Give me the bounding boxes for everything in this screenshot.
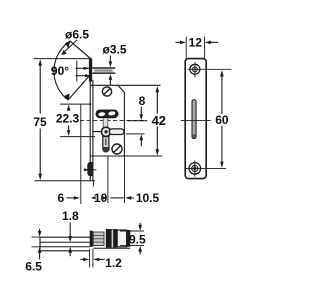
knob stem (lower slot) [103,137,109,152]
plate centerline [181,119,211,121]
arrowhead at top edge end [84,67,89,70]
knurled ring dark section [127,230,131,247]
9.5 dimension line lower with up arrowhead [138,246,142,252]
cam lever horizontal position: top edge [76,67,90,69]
22.3 dimension lower arrowhead (down) [68,126,70,131]
svg-text:12: 12 [189,36,203,50]
spindle shaft top lines [92,67,115,69]
slider slot stadium (dark with two white lens openings) [96,110,118,118]
22.3 dimension top extension line [60,103,92,105]
svg-text:10.5: 10.5 [136,191,160,205]
extension line from case right edge to bottom dims [124,156,126,203]
bottom hole vertical crosshair [194,160,196,176]
10 dimension right arrowhead [103,196,108,199]
bottom view cam bar inner lines [40,242,90,247]
front view: lock case top edge and 42-dim top extension line [91,84,161,86]
stack bottom edge line [93,247,130,249]
ø3.5 dimension line upper segment [109,56,111,62]
svg-text:ø6.5: ø6.5 [65,28,89,42]
stem screw slot [105,139,107,146]
svg-text:75: 75 [33,115,47,129]
front view: faceplate left edge line [89,80,91,181]
svg-text:6: 6 [57,191,64,205]
10.5 dimension left-pointing arrowhead with tail [125,196,131,200]
bottom hole horizontal crosshair and 60-dim bottom extension [186,167,226,169]
dashed centerline through cylinder axis [80,119,147,121]
1.2 dimension left line and arrowhead [80,258,84,260]
top hole horizontal crosshair and 60-dim top extension [188,68,232,70]
cam swing edge lower diagonal [68,75,91,101]
9.5 dimension line upper with down arrowhead [139,223,141,226]
bottom plate hole outer circle [189,163,201,175]
knob axis line [93,131,111,133]
svg-text:6.5: 6.5 [25,260,42,274]
12 dimension left line and arrowhead [176,41,182,43]
cam swing edge upper diagonal [70,41,91,59]
svg-text:90°: 90° [51,64,69,78]
svg-text:60: 60 [215,113,229,127]
6.5 dimension extension lines [32,237,41,247]
75 dimension bottom extension line [35,180,96,182]
ø3.5 arrowhead down [109,61,113,67]
cam lever horizontal position: bottom edge [76,75,90,77]
8 dimension bottom extension line [126,133,145,135]
42 dimension line lower with down arrowhead [156,127,158,151]
12 dimension right arrowhead and line [205,41,211,45]
9.5 dimension bottom extension line [120,245,144,247]
case left edge stub below strip [92,181,94,187]
neck between slot and knob [103,118,108,128]
slider left opening [98,112,105,117]
threaded section [93,232,104,246]
knob side stadium [109,129,124,135]
22.3 dimension bottom extension line [60,136,95,138]
1.8 dimension line upper with down arrowhead [69,223,71,238]
plate slot [192,100,196,139]
ø3.5 dimension line lower segment [109,80,111,85]
lower screw hole with slash [112,144,122,154]
top plate hole outer circle [190,64,200,74]
dimension leader ø6.5 [63,40,77,53]
svg-text:9.5: 9.5 [129,233,146,247]
12 dimension right tick [204,37,206,59]
knob circle [101,127,110,136]
10 dimension left arrowhead [91,196,96,199]
42 dimension line upper with up arrowhead [156,86,160,92]
1.2 dimension right arrowhead and tail [93,258,99,262]
1.8 dimension line lower with up arrowhead [68,247,72,253]
svg-text:ø3.5: ø3.5 [102,43,126,57]
cam lever horizontal position: end cap [76,61,78,82]
12 dimension left tick [185,37,187,59]
front view: case bottom edge and 42-dim bottom extension line [91,155,163,157]
cam lever vertical position (edge-on bar) [89,58,92,81]
6 dimension line with right arrowhead [67,197,75,199]
front view: case chamfered corner and right edge [118,85,124,156]
8 dimension top extension line (solid part) [128,120,148,122]
top plate hole inner circle [193,67,198,72]
latch tip extension line [80,104,82,204]
1.2 dimension ticks [90,249,93,268]
8 dimension upper line with down arrowhead [140,107,142,115]
svg-text:1.2: 1.2 [105,256,122,270]
6.5 dimension line upper with down arrowhead [39,229,41,232]
cylinder flange washer [90,231,93,247]
bottom plate hole inner circle [192,165,198,171]
spindle shaft gray core [94,69,114,73]
latch leader line with arrowhead [84,169,97,171]
75 dimension line lower segment with down arrowhead [39,129,41,175]
top hole vertical crosshair [194,62,196,77]
svg-text:42: 42 [152,113,166,128]
knurled nut dark section [106,229,117,248]
extension line from case mid to bottom dims [107,156,109,203]
svg-text:8: 8 [139,94,146,108]
bottom view cam bar outline [40,237,90,251]
arrowhead at bottom edge end [85,74,90,77]
front view: case left edge line [92,80,94,181]
10.5 dimension connector line [111,197,124,199]
svg-text:22.3: 22.3 [56,112,80,126]
svg-text:1.8: 1.8 [62,209,79,223]
arc arrowhead top [65,41,71,49]
leader arrowhead ø6.5 [61,50,66,55]
9.5 dimension top extension line [120,230,144,232]
22.3 dimension upper arrowhead (up) [67,105,71,111]
60 dimension line upper with up arrowhead [220,70,224,76]
arc arrowhead bottom [64,94,70,101]
side view strike plate outline [185,59,206,179]
latch bolt protrusion [87,162,93,176]
75 dimension top extension line [34,58,90,60]
stem dark lower end [103,147,108,151]
8 dimension lower arrowhead (up) and tail [140,134,144,140]
washer section [117,230,126,247]
ø3.5 arrowhead up [109,74,113,80]
slider right opening [108,111,116,116]
75 dimension line upper segment with up arrowhead [39,65,41,114]
60 dimension line lower with down arrowhead [221,126,223,163]
90-degree sweep arc [54,41,70,100]
upper screw hole with slash [102,87,111,96]
6.5 dimension line lower with up arrowhead [38,247,42,253]
